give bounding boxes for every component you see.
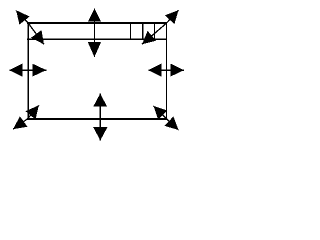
title bar button divider 2 [142, 22, 143, 40]
bottom-right corner resize arrow (double-headed diagonal through corner) [154, 106, 179, 130]
bottom-left corner resize arrow (double-headed diagonal through corner) [13, 105, 39, 129]
right edge resize arrow (double-headed horizontal) [148, 64, 184, 77]
top-left corner resize arrow (double-headed diagonal through corner) [16, 10, 44, 44]
top edge resize arrow (double-headed vertical) [88, 9, 101, 58]
window frame: right edge [166, 22, 167, 120]
bottom edge resize arrow (double-headed vertical) [93, 94, 107, 141]
window frame: top edge [27, 22, 167, 24]
left edge resize arrow (double-headed horizontal) [9, 64, 46, 77]
top-right corner resize arrow (double-headed diagonal through corner) [142, 10, 179, 44]
title bar button divider 3 [154, 22, 155, 40]
title bar bottom line [27, 39, 167, 40]
title bar button divider 1 [130, 22, 131, 40]
window frame: bottom edge [27, 118, 167, 120]
window frame: left edge [28, 22, 29, 120]
